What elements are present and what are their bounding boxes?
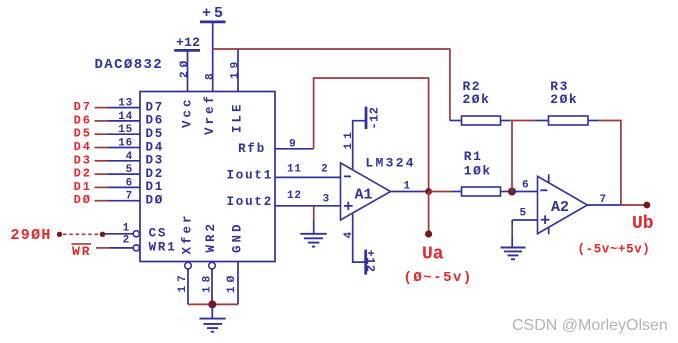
svg-text:D3: D3: [74, 153, 92, 167]
DAC0832 U1 body: [140, 92, 275, 262]
svg-text:D1: D1: [74, 180, 92, 194]
pin 2 WR1: [109, 234, 177, 254]
svg-text:WR2: WR2: [204, 221, 218, 253]
svg-text:8: 8: [204, 69, 216, 80]
pin 14 D6: [108, 111, 165, 128]
wire R1 to node 6: [501, 191, 513, 193]
node Ub label: [578, 214, 654, 257]
pin 10 GND: [226, 221, 245, 304]
svg-text:Ub: Ub: [632, 214, 654, 234]
pin 11 Iout1: [226, 164, 340, 183]
svg-text:D6: D6: [146, 114, 165, 128]
wire R2 node down to node 6: [511, 121, 513, 192]
pin 20 Vcc: [179, 57, 195, 128]
svg-text:+5: +5: [202, 5, 226, 22]
svg-text:Vcc: Vcc: [181, 96, 195, 128]
op-amp A2: [538, 174, 588, 234]
wire D5 stub: [95, 133, 108, 135]
svg-text:1Øk: 1Øk: [464, 164, 492, 179]
svg-text:7: 7: [600, 194, 607, 206]
svg-text:2Øk: 2Øk: [550, 92, 578, 107]
wire D1 stub: [95, 186, 108, 188]
svg-text:Xfer: Xfer: [181, 212, 195, 254]
wire dashed 290H to CS: [63, 233, 99, 235]
node Ub terminal dot: [644, 202, 651, 209]
op-amp A1: [341, 163, 391, 220]
pin 19 ILE: [229, 49, 244, 133]
pin 11 A1 V-: [343, 121, 366, 169]
node D4 label: [74, 140, 92, 154]
svg-text:DØ: DØ: [74, 193, 92, 207]
wire +5 to R2 (Vref net): [213, 49, 462, 121]
wire to Ua terminal: [428, 192, 430, 235]
node D2 label: [74, 167, 92, 181]
svg-text:+12: +12: [363, 250, 377, 273]
node D0 label: [74, 193, 92, 207]
svg-text:16: 16: [118, 138, 133, 150]
resistor R2 20k: [462, 79, 501, 125]
svg-text:4: 4: [126, 151, 133, 163]
label DAC0832: [95, 57, 164, 73]
svg-text:+12: +12: [176, 35, 200, 50]
wire WR stub: [96, 247, 109, 249]
svg-text:6: 6: [126, 177, 133, 189]
svg-text:Iout1: Iout1: [226, 169, 273, 183]
pin 18 WR2: [201, 221, 218, 304]
svg-text:Rfb: Rfb: [238, 142, 266, 156]
svg-text:DACØ832: DACØ832: [95, 57, 164, 73]
svg-text:5: 5: [126, 164, 133, 176]
node Ua terminal dot: [425, 230, 432, 237]
wire D7 stub: [95, 107, 108, 109]
svg-text:D7: D7: [146, 100, 165, 114]
junction node 6: [508, 188, 516, 196]
node 290H dot left: [57, 232, 62, 237]
pin 5 D2: [108, 164, 165, 181]
node D5 label: [74, 127, 92, 141]
node D6 label: [74, 113, 92, 127]
node CS dot: [100, 232, 105, 237]
svg-text:-12: -12: [367, 107, 381, 130]
svg-text:12: 12: [287, 190, 302, 202]
ground DAC: [199, 304, 225, 331]
pin 7 D0: [108, 191, 165, 208]
svg-text:(Ø~-5v): (Ø~-5v): [404, 270, 473, 286]
junction A1 output: [425, 188, 432, 195]
wire D0 stub: [95, 200, 108, 202]
svg-text:2Øk: 2Øk: [463, 92, 491, 107]
pin 12 Iout2: [226, 190, 340, 209]
svg-text:Ua: Ua: [422, 245, 444, 265]
svg-text:D6: D6: [74, 113, 92, 127]
wire D3 stub: [95, 160, 108, 162]
svg-text:Iout2: Iout2: [226, 195, 273, 209]
power +5: [200, 5, 226, 92]
pin 4 D3: [108, 151, 165, 168]
svg-text:2Ø: 2Ø: [179, 57, 191, 78]
resistor R3 20k: [549, 79, 589, 125]
svg-text:DØ: DØ: [146, 194, 165, 208]
svg-text:11: 11: [287, 164, 302, 176]
wire Rfb feedback loop: [314, 78, 429, 192]
wire A1 out to R1: [429, 191, 462, 193]
svg-text:9: 9: [289, 139, 296, 151]
svg-text:1: 1: [404, 181, 411, 193]
node 290H label: [11, 227, 52, 244]
svg-text:3: 3: [323, 194, 330, 206]
label LM324: [365, 155, 416, 170]
svg-text:13: 13: [118, 98, 133, 110]
pin 1 CS: [104, 222, 167, 240]
pin 15 D5: [108, 124, 165, 141]
svg-text:18: 18: [201, 272, 213, 293]
pin 7 A2 output: [587, 194, 621, 206]
wire R3 right to A2 output: [588, 121, 621, 206]
ground A2: [501, 248, 526, 260]
svg-text:D5: D5: [146, 127, 165, 141]
svg-text:D3: D3: [146, 154, 165, 168]
watermark: [512, 317, 668, 334]
power +12: [174, 35, 200, 92]
svg-text:A2: A2: [551, 199, 569, 216]
svg-text:5: 5: [520, 208, 527, 220]
svg-text:D1: D1: [146, 180, 165, 194]
pin 13 D7: [108, 98, 165, 115]
svg-text:A1: A1: [355, 187, 373, 204]
pin 16 D4: [108, 138, 165, 155]
svg-text:WR: WR: [72, 244, 92, 259]
svg-text:11: 11: [343, 128, 355, 149]
svg-text:CSDN @MorleyOlsen: CSDN @MorleyOlsen: [512, 317, 668, 334]
svg-text:GND: GND: [231, 221, 245, 253]
svg-text:D7: D7: [74, 100, 92, 114]
svg-text:ILE: ILE: [230, 101, 244, 133]
node D7 label: [74, 100, 92, 114]
svg-text:14: 14: [118, 111, 133, 123]
svg-text:4: 4: [343, 228, 355, 239]
svg-text:CS: CS: [149, 227, 168, 241]
ground at Iout2: [300, 206, 327, 247]
pin 1 A1 output: [391, 181, 429, 193]
pin 6 D1: [108, 177, 165, 194]
svg-text:(-5v~+5v): (-5v~+5v): [578, 243, 651, 257]
wire bottom pins to ground: [188, 303, 238, 305]
svg-text:D2: D2: [74, 167, 92, 181]
svg-text:7: 7: [126, 191, 133, 203]
node WR label: [72, 244, 92, 259]
wire R2 right to R3: [501, 120, 549, 122]
wire D4 stub: [95, 147, 108, 149]
junction dot bottom ground: [208, 300, 216, 308]
svg-text:19: 19: [229, 58, 241, 79]
svg-text:D4: D4: [74, 140, 92, 154]
pin 4 A1 V+: [343, 214, 366, 262]
svg-text:D5: D5: [74, 127, 92, 141]
svg-text:17: 17: [177, 271, 189, 292]
svg-text:R1: R1: [464, 149, 483, 164]
resistor R1 10k: [462, 149, 501, 196]
svg-text:15: 15: [118, 124, 133, 136]
pin 5 A2 wire and ground: [512, 208, 537, 248]
svg-text:D2: D2: [146, 167, 165, 181]
svg-text:29ØH: 29ØH: [11, 227, 52, 244]
pin 8 Vref: [203, 69, 217, 135]
svg-text:LM324: LM324: [365, 155, 416, 170]
wire D6 stub: [95, 120, 108, 122]
svg-text:D4: D4: [146, 140, 165, 154]
wire node 6 to A2: [512, 180, 538, 192]
svg-text:1: 1: [123, 222, 130, 234]
node D3 label: [74, 153, 92, 167]
pin 17 Xfer: [177, 212, 195, 304]
power -12: [366, 107, 381, 130]
wire D2 stub: [95, 173, 108, 175]
svg-text:6: 6: [522, 180, 529, 192]
svg-text:2: 2: [123, 234, 130, 246]
power +12 (A1): [363, 250, 377, 275]
svg-text:2: 2: [321, 164, 328, 176]
pin 9 Rfb: [238, 139, 314, 157]
svg-text:WR1: WR1: [149, 241, 177, 255]
wire A2 output to Ub: [621, 204, 647, 206]
svg-text:Vref: Vref: [203, 93, 217, 135]
node D1 label: [74, 180, 92, 194]
node Ua label: [404, 245, 473, 287]
svg-text:1Ø: 1Ø: [226, 272, 238, 293]
